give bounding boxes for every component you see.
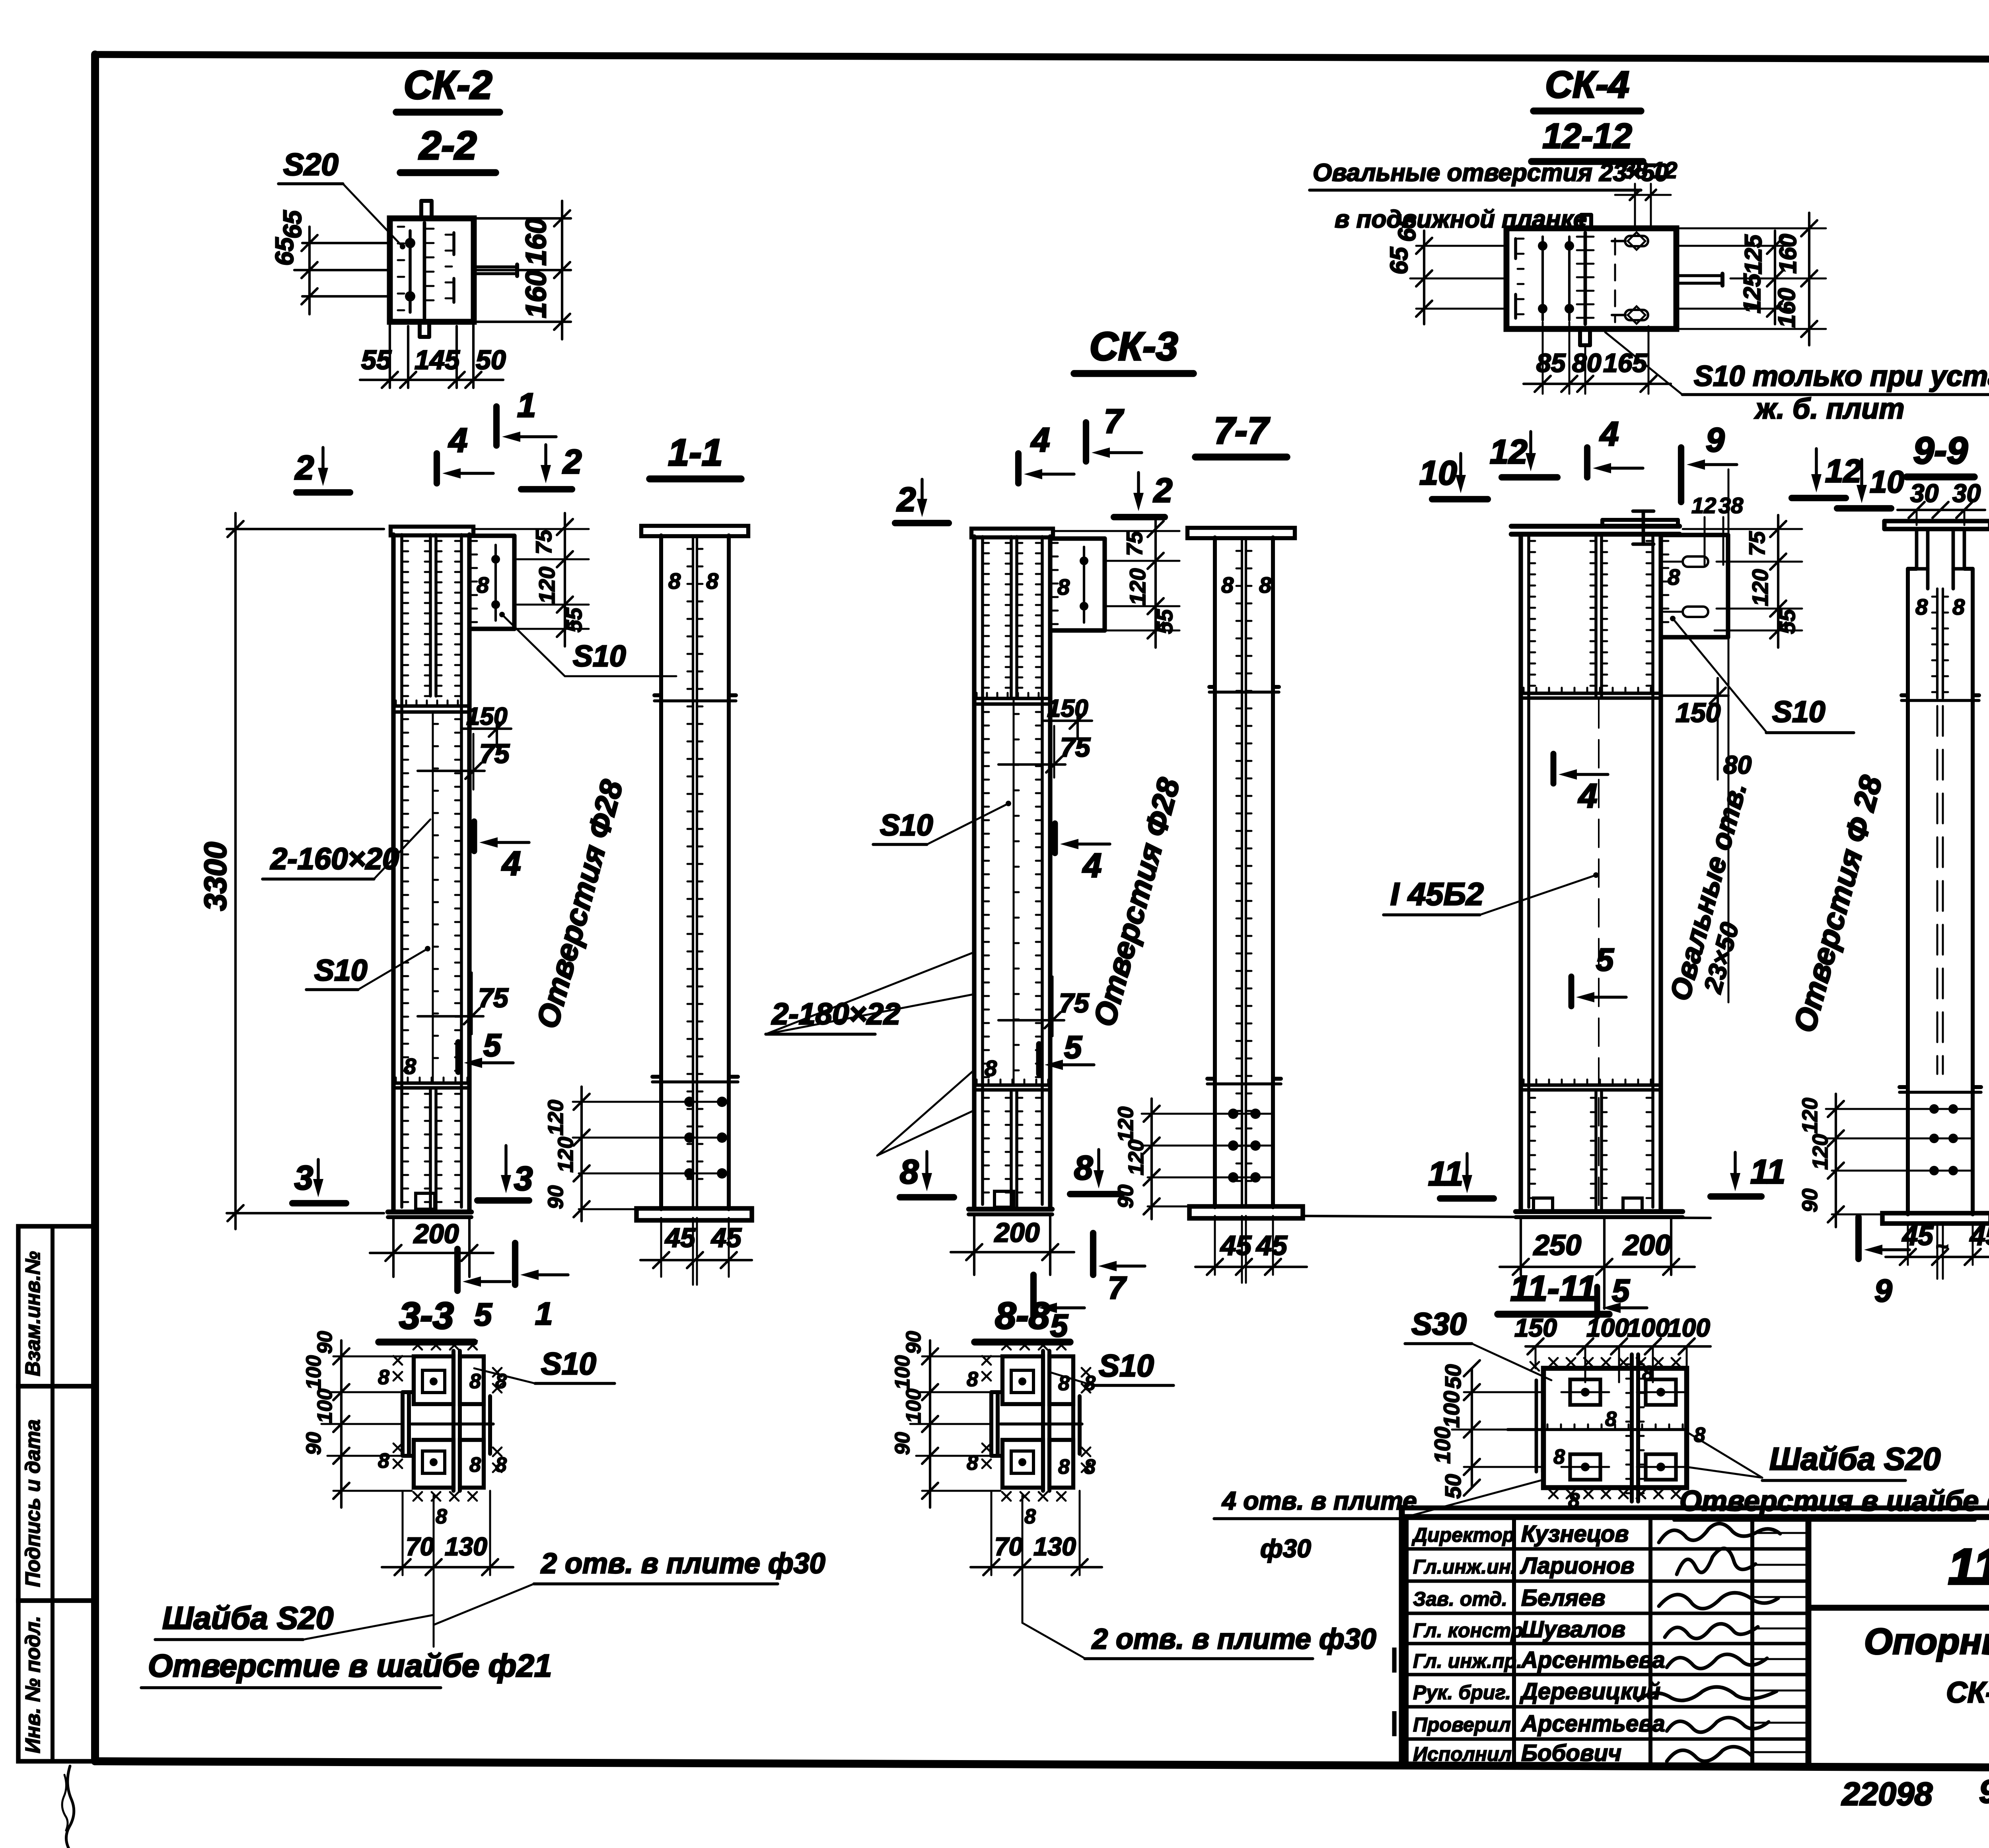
CK-2 bracket plate — [469, 533, 514, 538]
svg-text:100: 100 — [302, 1355, 325, 1390]
svg-text:8: 8 — [477, 572, 489, 597]
svg-text:30: 30 — [1952, 479, 1981, 508]
svg-text:1: 1 — [535, 1296, 553, 1331]
svg-text:75: 75 — [1122, 531, 1147, 556]
svg-text:200: 200 — [1622, 1229, 1671, 1261]
1-1 column body — [659, 535, 663, 1209]
svg-text:Опорные стойки: Опорные стойки — [1864, 1621, 1989, 1662]
svg-text:S10: S10 — [880, 808, 933, 842]
1-1 bottom dim 45 45 — [692, 1218, 694, 1285]
svg-text:8: 8 — [1668, 564, 1680, 589]
1-1 lower splice tabs — [652, 1080, 738, 1084]
3-3 lower plates — [414, 1440, 453, 1488]
svg-text:8: 8 — [1553, 1445, 1565, 1469]
7-7 column body — [1213, 537, 1217, 1207]
title block row lines — [1407, 1547, 1808, 1551]
9-9 cap plate — [1884, 519, 1989, 523]
CK-3 bracket plate — [1050, 536, 1105, 541]
svg-text:75: 75 — [531, 529, 556, 554]
section flag 7 top CK-3 — [1083, 422, 1089, 461]
oval holes with bolts 12-12 — [1625, 236, 1648, 246]
svg-text:4: 4 — [1599, 415, 1619, 453]
svg-text:90: 90 — [1979, 1774, 1989, 1810]
svg-text:160: 160 — [520, 270, 552, 318]
svg-text:2 отв. в плите ф30: 2 отв. в плите ф30 — [540, 1548, 825, 1580]
svg-text:50: 50 — [476, 345, 506, 375]
svg-text:СК-2 ; СК-3 ; СК-4: СК-2 ; СК-3 ; СК-4 — [1946, 1676, 1989, 1709]
svg-text:2: 2 — [562, 443, 582, 481]
svg-text:75: 75 — [1059, 988, 1090, 1018]
svg-text:80: 80 — [1572, 348, 1602, 377]
svg-text:2: 2 — [896, 481, 916, 519]
dim 75 CK-3 — [998, 763, 1065, 766]
svg-text:Бобович: Бобович — [1521, 1740, 1621, 1766]
leader S10 on CK-4 bracket — [1670, 616, 1676, 621]
svg-text:70: 70 — [994, 1532, 1023, 1561]
dims 90 100 100 90 left of 8-8 — [922, 1356, 1000, 1358]
7-7 cap plate — [1187, 528, 1295, 538]
1-1 base plate — [636, 1208, 752, 1220]
svg-text:150: 150 — [1514, 1313, 1557, 1342]
bolt dots 2-2 — [405, 238, 415, 248]
1-1 bottom bolts — [661, 1101, 729, 1103]
svg-text:150: 150 — [1047, 695, 1088, 722]
svg-text:9: 9 — [1706, 421, 1724, 459]
svg-text:12: 12 — [1825, 453, 1861, 489]
svg-text:125: 125 — [1740, 234, 1767, 274]
3-3 left outer plate — [401, 1392, 405, 1456]
section flag 1 top — [493, 407, 500, 445]
svg-text:100: 100 — [891, 1355, 914, 1390]
svg-text:90: 90 — [302, 1432, 325, 1455]
svg-text:7: 7 — [1104, 403, 1124, 440]
svg-text:8: 8 — [900, 1153, 919, 1191]
9-9 splice tabs — [1901, 699, 1979, 702]
svg-text:3-3: 3-3 — [399, 1295, 453, 1337]
svg-text:100: 100 — [1627, 1313, 1670, 1342]
CK-4 column flanges — [1518, 534, 1523, 1212]
svg-text:8: 8 — [1024, 1505, 1036, 1528]
7-7 bolt dims 120 120 90 — [1142, 1113, 1213, 1115]
svg-text:S10: S10 — [541, 1346, 596, 1381]
svg-text:S10: S10 — [314, 953, 367, 987]
stamp box Inv no podl — [18, 1601, 95, 1761]
svg-text:75: 75 — [479, 739, 510, 769]
CK-2 weld ticks lower — [402, 1093, 408, 1095]
svg-text:2-160×20: 2-160×20 — [270, 842, 399, 876]
svg-text:120: 120 — [1808, 1134, 1832, 1170]
svg-text:8: 8 — [1952, 594, 1965, 619]
svg-text:4: 4 — [501, 845, 521, 883]
svg-text:45: 45 — [710, 1223, 742, 1253]
svg-text:38: 38 — [1622, 158, 1648, 183]
svg-text:90: 90 — [1798, 1189, 1822, 1212]
section flag 4 top CK-4 — [1584, 447, 1590, 477]
svg-text:2-180×22: 2-180×22 — [771, 997, 900, 1031]
x marks around 8-8 — [1002, 1341, 1011, 1350]
section flag 4 top CK-2 — [434, 453, 440, 483]
CK-4 cap plate — [1511, 524, 1680, 529]
CK-3 center web lines — [1010, 537, 1013, 698]
svg-text:250: 250 — [1533, 1229, 1581, 1261]
title block signature table columns — [1512, 1517, 1516, 1765]
svg-text:160: 160 — [1773, 288, 1800, 328]
CK-2 base detail — [416, 1193, 435, 1209]
section flag 9 below CK-4 — [1855, 1217, 1862, 1259]
CK-4 planka oval holes — [1683, 556, 1708, 567]
dim 200 below CK-2 — [392, 1217, 395, 1277]
svg-text:125: 125 — [1739, 273, 1765, 313]
svg-text:Беляев: Беляев — [1521, 1585, 1606, 1611]
title block right: 11-2450-KM cell — [1808, 1605, 1989, 1611]
section flag 4 mid CK-2 — [471, 821, 477, 851]
CK-3 lower stiffener — [974, 1084, 1050, 1087]
section flags 7 and 5 below CK-3 — [1090, 1233, 1096, 1275]
1-1 upper splice tabs — [654, 699, 736, 702]
svg-text:45: 45 — [1969, 1220, 1989, 1251]
svg-text:~: ~ — [1935, 1233, 1948, 1259]
11-11 vertical plate — [1630, 1354, 1634, 1502]
svg-text:55: 55 — [1775, 609, 1800, 634]
svg-text:8: 8 — [1058, 1372, 1070, 1395]
1-1 cap plate top — [641, 526, 748, 536]
CK-2 middle web line — [432, 714, 434, 1083]
svg-text:2: 2 — [294, 449, 314, 487]
svg-text:|: | — [1390, 1707, 1397, 1736]
svg-text:120: 120 — [544, 1100, 568, 1136]
svg-text:75: 75 — [1060, 732, 1091, 763]
svg-text:8: 8 — [985, 1056, 997, 1081]
svg-text:8: 8 — [706, 568, 719, 593]
svg-text:Гл. констр.: Гл. констр. — [1413, 1619, 1528, 1642]
svg-text:90: 90 — [891, 1432, 914, 1455]
CK-3 column cap plate — [971, 529, 1053, 537]
svg-text:1: 1 — [517, 387, 536, 424]
svg-text:100: 100 — [1439, 1391, 1464, 1428]
9-9 top neck plates — [1915, 529, 1919, 569]
svg-text:4: 4 — [1082, 847, 1102, 885]
svg-text:Арсентьева: Арсентьева — [1520, 1711, 1665, 1737]
svg-text:150: 150 — [1676, 698, 1721, 728]
CK-3 bracket bolts — [1083, 547, 1085, 622]
stamp box Podpis i data — [18, 1386, 95, 1601]
svg-text:Директор: Директор — [1411, 1524, 1514, 1546]
section flag 4 mid CK-4 — [1551, 754, 1557, 784]
svg-text:8: 8 — [1084, 1372, 1096, 1395]
x marks around 3-3 — [413, 1341, 422, 1350]
svg-text:8: 8 — [1915, 594, 1928, 619]
svg-text:22098: 22098 — [1841, 1776, 1933, 1812]
bracket dims 75 120 55 right of CK-4 — [1683, 528, 1802, 530]
svg-text:5: 5 — [483, 1027, 502, 1063]
svg-text:5: 5 — [474, 1297, 492, 1332]
ground line from 7-7 base to CK-4 area — [1305, 1216, 1711, 1218]
pencil mark left margin — [66, 1766, 74, 1848]
svg-text:100: 100 — [1668, 1313, 1710, 1342]
svg-text:120: 120 — [1124, 1140, 1148, 1175]
svg-text:12: 12 — [1652, 158, 1678, 183]
svg-text:50: 50 — [1440, 1364, 1465, 1389]
svg-text:8: 8 — [495, 1370, 507, 1393]
svg-text:Арсентьева: Арсентьева — [1520, 1647, 1665, 1673]
svg-text:5: 5 — [1064, 1029, 1082, 1065]
svg-text:СК-3: СК-3 — [1090, 324, 1178, 369]
svg-text:S10: S10 — [1772, 695, 1825, 728]
svg-text:8: 8 — [1642, 1362, 1654, 1385]
3-3 right flange plate top — [460, 1356, 484, 1404]
title block outer — [1402, 1506, 1989, 1511]
3-3 main plates — [452, 1351, 455, 1491]
svg-text:8: 8 — [469, 1453, 481, 1476]
7-7 center weld lines — [1241, 537, 1243, 1207]
svg-text:5: 5 — [1612, 1273, 1630, 1308]
svg-text:145: 145 — [415, 345, 460, 375]
8-8 mid horizontal — [1000, 1422, 1082, 1426]
svg-text:75: 75 — [1744, 531, 1769, 556]
dim 150 on CK-2 — [462, 728, 511, 730]
svg-text:120: 120 — [1798, 1098, 1822, 1134]
CK-2 bracket bolts — [494, 545, 497, 621]
8-8 main plates — [1041, 1351, 1045, 1491]
7-7 lower splice tabs — [1207, 1082, 1281, 1085]
dim 75 below stiffener CK-2 — [418, 770, 485, 772]
svg-text:8: 8 — [1605, 1408, 1617, 1431]
anchor rod 2-2 — [474, 265, 517, 268]
svg-text:4 отв. в плите: 4 отв. в плите — [1221, 1486, 1417, 1515]
svg-text:45: 45 — [1901, 1220, 1934, 1251]
svg-text:S30: S30 — [1411, 1306, 1467, 1341]
svg-text:8: 8 — [1058, 1455, 1070, 1478]
svg-text:3: 3 — [294, 1159, 313, 1197]
svg-text:8: 8 — [404, 1054, 416, 1079]
CK-4 stiffener — [1521, 692, 1661, 695]
svg-text:45: 45 — [1220, 1230, 1252, 1261]
plate 12-12 outline — [1506, 228, 1676, 329]
section flag 5 mid CK-4 — [1569, 977, 1574, 1006]
plate 11-11 outline — [1543, 1368, 1687, 1488]
svg-text:2-2: 2-2 — [418, 123, 477, 168]
svg-text:ф30: ф30 — [1260, 1534, 1311, 1563]
svg-text:Кузнецов: Кузнецов — [1521, 1521, 1629, 1547]
svg-text:9-9: 9-9 — [1913, 430, 1968, 472]
9-9 column body — [1906, 569, 1910, 1214]
svg-text:8: 8 — [967, 1368, 978, 1391]
svg-text:55: 55 — [1152, 609, 1177, 634]
svg-text:4: 4 — [1030, 421, 1050, 459]
svg-text:45: 45 — [1255, 1230, 1288, 1261]
7-7 bottom bolts — [1215, 1113, 1273, 1115]
svg-text:8: 8 — [1074, 1149, 1093, 1187]
svg-text:8: 8 — [378, 1449, 389, 1473]
svg-text:90: 90 — [902, 1331, 925, 1354]
dim 150 80 on CK-4 — [1661, 694, 1728, 697]
leader S10 tolko pri ustanovke zh.b. plit — [1605, 332, 1682, 395]
svg-text:S10: S10 — [1099, 1348, 1154, 1383]
svg-text:90: 90 — [1114, 1185, 1138, 1208]
svg-text:12: 12 — [1691, 493, 1716, 518]
svg-text:100: 100 — [313, 1389, 337, 1423]
channel section marks 2-2 — [398, 226, 404, 228]
svg-text:160: 160 — [520, 218, 552, 266]
svg-text:11: 11 — [1428, 1155, 1463, 1193]
3-3 washers and bolts — [422, 1370, 445, 1393]
dims 70 130 below 3-3 — [402, 1491, 404, 1575]
svg-text:Овальные отверстия 23×50: Овальные отверстия 23×50 — [1313, 159, 1668, 187]
CK-2 weld ticks upper — [402, 540, 408, 542]
CK-3 base detail — [994, 1191, 1014, 1207]
dim 75 lower CK-3 — [998, 1019, 1064, 1021]
1-1 bolt dims 120 120 90 — [573, 1101, 660, 1103]
svg-text:11 - 2450 - КМ: 11 - 2450 - КМ — [1948, 1539, 1989, 1595]
7-7 base plate — [1189, 1206, 1303, 1218]
CK-3 stiffener — [974, 697, 1050, 700]
svg-text:45: 45 — [664, 1223, 696, 1253]
left channel marks 12-12 — [1514, 239, 1517, 259]
svg-text:8: 8 — [1221, 572, 1234, 597]
svg-text:50: 50 — [1440, 1474, 1465, 1499]
CK-2 column body flanges — [391, 535, 395, 1212]
svg-text:8: 8 — [436, 1505, 447, 1528]
svg-text:СК-2: СК-2 — [404, 63, 492, 107]
svg-text:Проверил: Проверил — [1413, 1714, 1511, 1736]
svg-text:8: 8 — [495, 1453, 507, 1476]
dims 50 100 100 50 left of 11-11 — [1464, 1391, 1542, 1393]
leader S10 from bracket CK-2 — [499, 612, 505, 617]
svg-text:ж. б. плит: ж. б. плит — [1754, 393, 1904, 425]
8-8 washers and bolts — [1011, 1370, 1033, 1393]
svg-text:7: 7 — [1108, 1270, 1127, 1305]
bracket dims 75 120 55 right of CK-3 — [1054, 530, 1179, 532]
section flag 4 mid CK-3 — [1052, 823, 1058, 853]
11-11 left vertical bar — [1535, 1380, 1538, 1472]
CK-3 column body — [972, 537, 976, 1209]
svg-text:9: 9 — [1874, 1273, 1892, 1308]
bracket dims 75 120 55 right of CK-2 — [473, 528, 589, 530]
svg-text:200: 200 — [413, 1219, 459, 1249]
section flags 5 and 1 below CK-2 — [454, 1249, 461, 1291]
9-9 bottom dim 45 45 — [1907, 1223, 1909, 1265]
CK-2 lower stiffener — [393, 1082, 469, 1085]
svg-text:2: 2 — [1153, 472, 1172, 510]
CK-2 column center web lines — [429, 535, 432, 696]
svg-text:90: 90 — [544, 1185, 568, 1209]
svg-text:5: 5 — [1050, 1308, 1068, 1343]
svg-text:100: 100 — [1430, 1427, 1455, 1464]
svg-text:12: 12 — [1490, 433, 1528, 471]
svg-text:4: 4 — [1578, 777, 1597, 815]
11-11 horizontal mid line — [1508, 1428, 1687, 1431]
dim 200 below CK-3 — [973, 1214, 975, 1275]
svg-text:65: 65 — [270, 237, 299, 266]
svg-text:8-8: 8-8 — [995, 1295, 1049, 1337]
svg-text:130: 130 — [1033, 1532, 1076, 1561]
svg-text:|: | — [1390, 1644, 1397, 1672]
9-9 center lines — [1936, 589, 1938, 698]
svg-text:85: 85 — [1536, 348, 1566, 377]
dims 70 130 below 8-8 — [991, 1491, 993, 1575]
svg-text:11: 11 — [1750, 1153, 1785, 1191]
svg-text:75: 75 — [478, 983, 509, 1013]
1-1 center weld lines — [692, 535, 694, 895]
svg-text:Гл.инж.ин.: Гл.инж.ин. — [1413, 1556, 1516, 1578]
section flag 9 top CK-4 — [1678, 447, 1684, 502]
CK-2 weld ticks mid flange — [402, 718, 408, 720]
7-7 bottom dim 45 45 — [1241, 1216, 1243, 1283]
9-9 lower splice tabs — [1899, 1091, 1981, 1094]
svg-text:12-12: 12-12 — [1542, 116, 1632, 156]
CK-4 web center lines — [1594, 534, 1598, 698]
CK-4 base plate — [1516, 1209, 1683, 1214]
svg-text:Рук. бриг.: Рук. бриг. — [1413, 1681, 1511, 1704]
svg-text:10: 10 — [1419, 454, 1457, 492]
CK-4 planka bracket right — [1661, 533, 1728, 537]
svg-text:Взам.инв.№: Взам.инв.№ — [21, 1251, 45, 1376]
svg-text:120: 120 — [1114, 1107, 1138, 1142]
svg-text:7-7: 7-7 — [1214, 410, 1270, 452]
dimension 55 145 50 below 2-2 — [389, 322, 391, 388]
svg-text:120: 120 — [1125, 568, 1150, 605]
svg-text:8: 8 — [1084, 1455, 1096, 1478]
dim 75 lower CK-2 — [418, 1015, 483, 1017]
sheet border frame — [95, 54, 1989, 60]
svg-text:38: 38 — [1718, 493, 1744, 518]
svg-text:8: 8 — [668, 568, 681, 593]
svg-text:Подпись и дата: Подпись и дата — [21, 1419, 45, 1587]
CK-2 column cap plate — [391, 527, 473, 535]
svg-text:S20: S20 — [283, 147, 339, 182]
svg-text:150: 150 — [466, 703, 507, 730]
svg-text:3300: 3300 — [198, 842, 233, 911]
11-11 washers with bolts — [1570, 1379, 1600, 1405]
dashed plate edge 12-12 — [1614, 239, 1616, 322]
svg-text:Инв. № подл.: Инв. № подл. — [21, 1616, 45, 1753]
dims 125 125 and 160 160 right of 12-12 — [1676, 245, 1790, 247]
dimension 65/65 left of 2-2 — [302, 242, 390, 244]
dim 150 on CK-3 — [1043, 720, 1092, 722]
svg-text:8: 8 — [1259, 572, 1272, 597]
svg-text:Ларионов: Ларионов — [1520, 1553, 1635, 1579]
svg-text:Шайба S20: Шайба S20 — [1769, 1441, 1940, 1476]
svg-text:90: 90 — [313, 1331, 337, 1354]
svg-text:130: 130 — [445, 1532, 487, 1561]
CK-4 centerline dashed — [1598, 700, 1600, 1207]
plate 2-2 outline — [390, 218, 474, 322]
svg-text:1-1: 1-1 — [668, 432, 722, 474]
gusset tab bottom 2-2 — [418, 322, 422, 337]
svg-text:2 отв. в плите ф30: 2 отв. в плите ф30 — [1091, 1623, 1376, 1655]
svg-text:S10 только при установке: S10 только при установке — [1694, 360, 1989, 392]
dim 250 200 below CK-4 — [1520, 1217, 1522, 1275]
3-3 right outer plate — [482, 1396, 486, 1454]
section flag 5 below CK-4 — [1594, 1287, 1600, 1317]
svg-text:СК-4: СК-4 — [1545, 64, 1629, 106]
bolt line 2-2 — [409, 231, 412, 312]
section flag 5 CK-3 — [1036, 1044, 1042, 1074]
svg-text:S10: S10 — [573, 639, 626, 673]
svg-text:65: 65 — [278, 210, 307, 239]
7-7 upper splice tabs — [1209, 691, 1279, 694]
svg-text:3: 3 — [514, 1160, 533, 1198]
svg-text:65: 65 — [1386, 247, 1413, 274]
svg-text:4: 4 — [448, 422, 467, 459]
svg-text:Гл. инж.пр.: Гл. инж.пр. — [1413, 1650, 1522, 1672]
svg-text:55: 55 — [561, 607, 586, 632]
anchor rod 12-12 — [1676, 274, 1722, 277]
gusset tab top 2-2 — [419, 201, 423, 218]
CK-4 lower stiffener — [1521, 1084, 1661, 1087]
CK-2 stiffener at 150 — [393, 704, 469, 708]
svg-text:65: 65 — [1393, 214, 1421, 242]
